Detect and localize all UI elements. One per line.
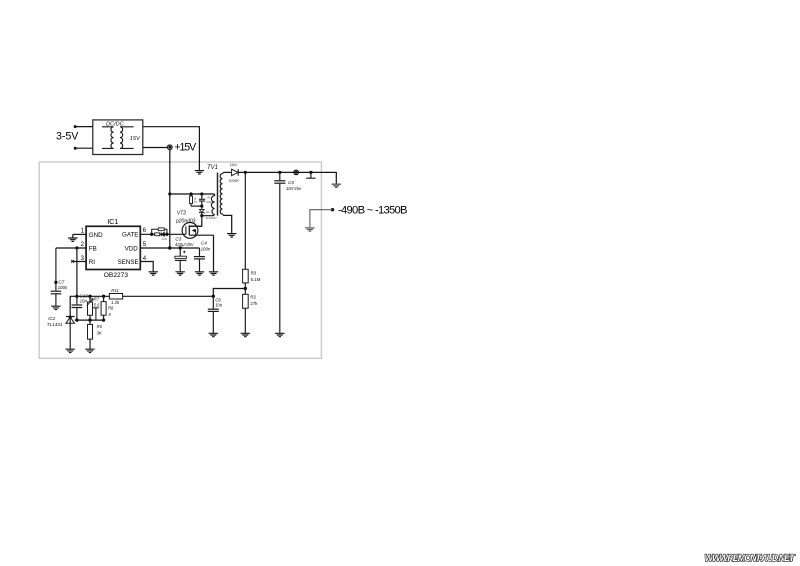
transformer inside DC/DC: primary coil: [102, 127, 114, 149]
wire FB junction down: [76, 248, 78, 296]
ground HV rail end (gray): [332, 184, 342, 187]
ground output reference (gray): [305, 228, 315, 231]
svg-text:10n: 10n: [80, 299, 88, 304]
node C5 tap on HV rail: [278, 171, 281, 174]
node RI no-connect cross: [71, 260, 74, 263]
diode VD rectifier HV: [229, 163, 240, 183]
node clamp mid junction: [200, 205, 203, 208]
frame of schematic: [39, 162, 321, 358]
node R3 tap on HV rail: [244, 171, 247, 174]
wire TL431 bracket: [70, 296, 77, 316]
svg-text:TL1431: TL1431: [47, 322, 63, 327]
node FB divider top junction: [75, 295, 78, 298]
svg-text:SENSE: SENSE: [118, 259, 139, 266]
transistor VT2 drain lead: [189, 225, 202, 227]
svg-text:10n: 10n: [215, 302, 223, 307]
capacitor C4: [194, 241, 211, 272]
wire input bottom to converter: [75, 147, 93, 149]
svg-text:5.6: 5.6: [94, 303, 100, 308]
node VDD +15V junction: [168, 246, 171, 249]
node C10 bottom junction: [75, 318, 78, 321]
svg-text:100n: 100n: [201, 247, 211, 252]
resistor R2: [243, 289, 259, 333]
svg-text:0005R: 0005R: [229, 179, 240, 183]
terminal +15V: [168, 145, 173, 150]
op IC1 OB2273 box: [86, 226, 140, 269]
node output point: [331, 208, 334, 211]
svg-text:X: X: [107, 312, 111, 317]
wire DC/DC bottom output to +15V terminal: [143, 147, 168, 149]
svg-text:+15V: +15V: [174, 142, 197, 154]
svg-text:C3: C3: [175, 237, 181, 242]
ground pin1: [68, 238, 77, 241]
wire input top to converter: [75, 126, 93, 128]
wire primary top rail: [170, 193, 215, 195]
svg-text:GND: GND: [89, 232, 103, 239]
resistor R11: [109, 288, 122, 305]
ground C4: [195, 272, 204, 275]
node +15V / primary rail junction: [168, 192, 171, 195]
node input terminal top: [74, 125, 77, 128]
resistor R6: [88, 320, 103, 349]
svg-text:C5: C5: [288, 180, 294, 185]
capacitor C7: [51, 248, 68, 306]
node C8 junction: [212, 295, 215, 298]
svg-text:WWW.REMONT-AUD.NET: WWW.REMONT-AUD.NET: [705, 553, 796, 563]
svg-text:C7: C7: [58, 279, 64, 284]
resistor gate (top branch): [152, 228, 167, 234]
svg-text:R11: R11: [111, 288, 119, 293]
ground C8: [209, 333, 218, 336]
DC/DC converter module U-DC box: [93, 120, 143, 155]
capacitor snubber C (clamp): [199, 194, 213, 206]
wire clamp junction down to drain: [190, 216, 202, 227]
transistor VT2 body arrow: [193, 229, 196, 235]
svg-text:wUF4007: wUF4007: [206, 216, 218, 220]
diode clamp zener: [199, 206, 210, 216]
node C3 junction: [179, 246, 182, 249]
ground IC2: [66, 349, 75, 352]
svg-text:VDD: VDD: [125, 246, 139, 253]
svg-text:R7: R7: [94, 297, 100, 302]
wire top rail of regulator cluster: [77, 295, 110, 297]
transformer TV1 secondary winding: [220, 172, 223, 215]
node R8 bottom: [102, 319, 105, 322]
wire pin4 SENSE to ground: [140, 262, 153, 272]
transistor VT2 source lead: [189, 234, 213, 236]
ground VT2 source: [209, 272, 218, 275]
wire HV rail: [238, 172, 336, 183]
ground DC/DC return: [195, 171, 204, 174]
svg-text:1R: 1R: [206, 195, 209, 199]
wiper tap bar: [93, 308, 99, 320]
transformer TV1 core: [217, 173, 219, 216]
wire secondary top to diode: [224, 171, 232, 173]
svg-text:R2: R2: [250, 294, 256, 299]
wire feedback long run: [123, 295, 214, 297]
svg-text:10v: 10v: [205, 210, 210, 214]
svg-text:10n*1kv: 10n*1kv: [286, 186, 302, 191]
wire output to gray ground: [310, 210, 333, 227]
svg-text:R8: R8: [108, 306, 114, 311]
transistor VT2 gate bar: [182, 226, 186, 234]
ground R2: [241, 333, 250, 336]
svg-text:C4: C4: [201, 241, 207, 246]
svg-text:IC2: IC2: [48, 316, 56, 321]
node stub on HV rail: [309, 171, 312, 174]
resistor R3: [243, 172, 261, 288]
capacitor C10: [72, 294, 89, 321]
ground C3: [176, 272, 185, 275]
svg-text:100n: 100n: [58, 285, 68, 290]
node R3 R2 divider tap: [244, 287, 247, 290]
wire pin1 GND to ground: [73, 233, 86, 235]
ground secondary return: [227, 234, 236, 237]
node clamp bottom junction: [200, 214, 203, 217]
node gate network right: [165, 233, 168, 236]
wire regulator bottom rail: [75, 319, 104, 321]
svg-text:OB2273: OB2273: [104, 272, 129, 279]
svg-text:p20nd03: p20nd03: [175, 218, 196, 224]
resistor R7 trimmer: [87, 296, 100, 320]
svg-text:5.1M: 5.1M: [251, 277, 261, 282]
IC2 TL1431 shunt regulator: [47, 316, 75, 349]
svg-text:2w: 2w: [194, 200, 197, 204]
wire pin5 VDD right: [140, 247, 199, 249]
node input terminal bottom: [74, 147, 77, 150]
wire secondary bottom to ground: [223, 215, 231, 233]
node snubber resistor top: [189, 192, 192, 195]
wire clamp junction to primary bottom: [202, 215, 215, 216]
svg-text:27k: 27k: [250, 301, 258, 306]
node R7 top: [88, 295, 91, 298]
wire pin6 GATE to mosfet: [140, 233, 182, 235]
ground C7: [51, 306, 60, 309]
stub chassis bar: [306, 172, 315, 178]
transistor VT2 mosfet circle: [182, 223, 198, 239]
wire DC/DC top output to ground: [143, 127, 200, 171]
svg-text:RI: RI: [89, 259, 95, 266]
wire pin3 RI stub: [72, 261, 87, 263]
svg-text:3K: 3K: [97, 330, 102, 335]
svg-text:15V: 15V: [130, 136, 141, 142]
svg-text:12kV: 12kV: [230, 163, 238, 167]
svg-text:IC1: IC1: [107, 217, 118, 226]
diode gate (bottom branch): [161, 232, 167, 241]
ground SENSE: [149, 272, 158, 275]
wire divider tap to feedback: [213, 289, 245, 297]
ground R6: [85, 349, 94, 352]
svg-text:R3: R3: [251, 271, 257, 276]
wire source down to ground: [213, 235, 215, 271]
node R6 top: [88, 318, 91, 321]
node R8 top: [102, 295, 105, 298]
svg-text:TV1: TV1: [207, 165, 218, 171]
transformer TV1 primary winding: [211, 194, 214, 215]
svg-text:FB: FB: [89, 246, 97, 253]
node clamp cap top: [200, 192, 203, 195]
resistor snubber R (clamp): [190, 194, 202, 206]
capacitor C5: [274, 172, 302, 333]
capacitor C3 electrolytic: [175, 237, 194, 272]
svg-text:GATE: GATE: [122, 232, 138, 239]
transformer inside DC/DC: secondary coil: [120, 127, 134, 149]
wire +15V rail down: [169, 150, 171, 249]
svg-text:-490В ~ -1350В: -490В ~ -1350В: [338, 205, 408, 217]
svg-text:4148: 4148: [162, 238, 168, 241]
svg-text:1.2k: 1.2k: [111, 300, 120, 305]
svg-text:VT2: VT2: [177, 211, 186, 217]
svg-text:R6: R6: [97, 324, 103, 329]
terminal HV output: [294, 170, 299, 175]
svg-text:420µ*25v: 420µ*25v: [175, 242, 194, 247]
ground C5: [275, 333, 284, 336]
node gate network left: [150, 233, 153, 236]
transistor VT2 channel: [188, 225, 190, 235]
svg-text:3-5V: 3-5V: [56, 131, 79, 143]
resistor R8: [101, 296, 114, 320]
wire pin2 FB left: [56, 247, 86, 249]
node FB junction: [75, 246, 78, 249]
watermark WWW.REMONT-AUD.NET: [705, 553, 797, 564]
resistor gate series (bottom branch): [155, 233, 160, 236]
capacitor C8: [208, 296, 223, 333]
